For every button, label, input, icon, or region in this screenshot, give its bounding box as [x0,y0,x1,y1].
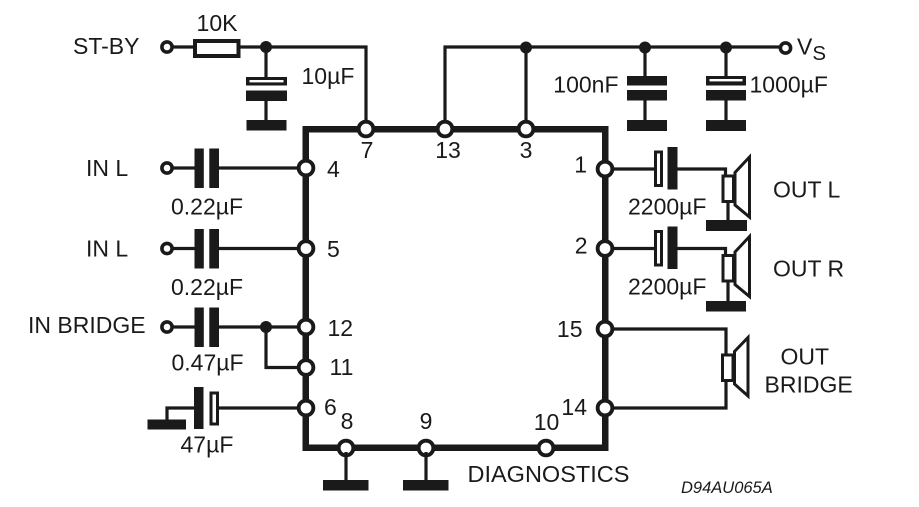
resistor R1 [195,41,239,56]
wire pin14 to speaker bridge bottom [611,381,726,408]
svg-text:ST-BY: ST-BY [73,33,139,59]
pin 2 [598,241,613,256]
pin 9 [419,441,434,456]
wire pin3 riser [524,48,527,127]
ground pin8 [323,480,369,491]
pin 5 [299,241,314,256]
pin 13 [438,122,453,137]
capacitor C4 0.22uF [195,149,220,189]
svg-text:0.22µF: 0.22µF [171,274,243,300]
svg-text:15: 15 [557,316,583,342]
svg-text:DIAGNOSTICS: DIAGNOSTICS [468,461,630,487]
svg-text:13: 13 [435,137,461,163]
wire terminal to C5 [172,247,195,250]
pin 10 [539,441,554,456]
svg-text:10K: 10K [197,10,239,36]
junction C2 [639,42,651,54]
svg-text:100nF: 100nF [553,72,618,98]
svg-text:7: 7 [361,137,374,163]
svg-text:3: 3 [520,137,533,163]
terminal IN L row2 [162,243,172,253]
svg-text:5: 5 [327,236,340,262]
pin 11 [299,360,314,375]
pin 14 [598,401,613,416]
svg-text:14: 14 [561,394,587,420]
wire C6 to pin12 [219,325,300,328]
wire ground to C7 [167,408,195,420]
wire C8 to speaker OUT L [678,169,726,176]
pin 3 [519,122,534,137]
wire pin2 to C9 [611,247,655,250]
svg-text:0.47µF: 0.47µF [172,350,244,376]
pin 4 [299,161,314,176]
wire junction to pin11 [266,327,300,368]
wire junction to C1 [264,47,267,78]
svg-text:2: 2 [575,233,588,259]
wire terminal to C4 [172,166,195,169]
svg-text:OUT: OUT [781,344,830,370]
pin 12 [299,320,314,335]
speaker OUT BRIDGE [723,338,749,397]
svg-text:OUT R: OUT R [773,256,844,282]
capacitor C2 100nF [627,76,667,101]
wire pin13 riser and top supply wire [445,47,780,127]
terminal IN BRIDGE [162,322,172,332]
wire C2 to ground [643,100,646,122]
svg-text:D94AU065A: D94AU065A [681,479,773,497]
wire terminal to C6 [172,325,195,328]
ground C1 [247,120,287,131]
ground C2 [627,120,667,131]
svg-text:11: 11 [330,354,354,380]
svg-text:IN L: IN L [86,155,128,181]
wire pin8 to ground [344,452,347,481]
terminal VS [780,43,790,53]
junction B [260,321,272,333]
ground C3 [706,120,746,131]
terminal ST-BY [162,42,172,52]
ground pin9 [403,480,449,491]
capacitor C1 10uF [246,77,287,101]
svg-text:47µF: 47µF [181,432,234,458]
pin 6 [299,401,314,416]
svg-text:10µF: 10µF [302,63,355,89]
svg-text:1: 1 [574,152,587,178]
pin 1 [598,162,613,177]
capacitor C8 2200uF [656,147,678,190]
junction A [260,41,272,53]
wire C7 to pin6 [219,406,300,409]
capacitor C7 47uF [194,387,218,429]
svg-text:BRIDGE: BRIDGE [765,372,853,398]
svg-text:10: 10 [534,409,560,435]
wire C9 to speaker OUT R [678,249,726,256]
pin 7 [359,122,374,137]
wire junction to C2 [643,47,646,78]
wire junction to C3 [724,47,727,78]
svg-text:9: 9 [420,408,433,434]
wire resistor to pin7 riser [240,47,366,127]
svg-text:12: 12 [328,315,354,341]
capacitor C5 0.22uF [195,229,220,269]
wire C1 to ground [264,101,267,122]
speaker OUT L [706,157,750,231]
svg-text:IN L: IN L [86,236,128,262]
capacitor C6 0.47uF [195,308,220,348]
svg-text:OUT L: OUT L [773,177,841,203]
svg-text:IN BRIDGE: IN BRIDGE [28,312,146,338]
junction C3 [720,42,732,54]
svg-text:4: 4 [327,156,340,182]
capacitor C9 2200uF [656,227,678,270]
svg-text:0.22µF: 0.22µF [171,194,243,220]
capacitor C3 1000uF [706,76,746,101]
speaker OUT R [706,237,750,312]
IC U1 body [306,129,606,448]
wire C5 to pin5 [219,247,300,250]
pin 15 [598,322,613,337]
svg-text:1000µF: 1000µF [750,72,828,98]
svg-text:6: 6 [324,394,337,420]
junction pin3 riser [520,42,532,54]
wire terminal to resistor [172,45,194,48]
terminal IN L row1 [162,163,172,173]
svg-text:8: 8 [341,408,354,434]
wire pin1 to C8 [611,167,655,170]
wire C3 to ground [724,100,727,122]
wire pin15 to speaker bridge top [611,329,726,355]
pin 8 [339,441,354,456]
wire C4 to pin4 [219,166,300,169]
svg-text:2200µF: 2200µF [628,274,706,300]
ground C7 [148,420,187,430]
wire pin9 to ground [424,452,427,481]
svg-text:2200µF: 2200µF [628,194,706,220]
